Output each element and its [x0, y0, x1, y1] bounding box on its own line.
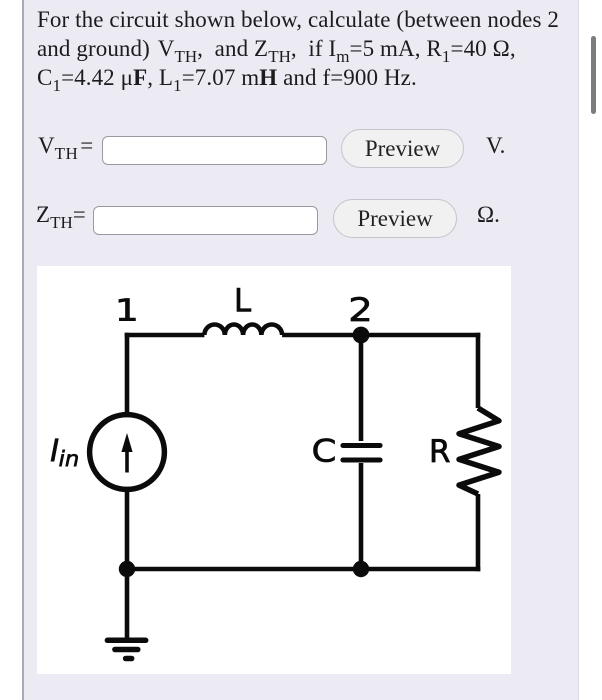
- junction dot bottom-middle: [353, 561, 369, 577]
- wire top right segment (inductor to node 2 to right corner): [282, 333, 480, 338]
- wire right vertical top: [476, 333, 481, 408]
- inductor L1 coil: [204, 325, 282, 336]
- wire left vertical: [125, 333, 130, 415]
- capacitor label C: [314, 439, 335, 463]
- capacitor branch wire bottom: [359, 463, 364, 569]
- wire bottom: [127, 567, 480, 572]
- wire to ground: [125, 569, 130, 638]
- resistor R zigzag: [459, 408, 499, 494]
- source label Iin: [51, 439, 58, 461]
- ground symbol: [107, 640, 145, 658]
- junction node 2 dot: [353, 327, 370, 344]
- current source arrow: [121, 433, 132, 473]
- resistor label R: [432, 439, 450, 462]
- junction dot bottom-left: [119, 561, 135, 577]
- inductor label L: [237, 288, 251, 311]
- wire below source: [125, 490, 130, 569]
- capacitor branch wire top: [359, 335, 364, 441]
- wire top left segment (node 1 to inductor): [125, 333, 205, 338]
- current source Iin circle: [90, 415, 165, 490]
- node label 1: [119, 299, 135, 321]
- capacitor C plates: [343, 446, 380, 461]
- wire right vertical bottom: [476, 494, 481, 571]
- node label 2: [351, 297, 369, 321]
